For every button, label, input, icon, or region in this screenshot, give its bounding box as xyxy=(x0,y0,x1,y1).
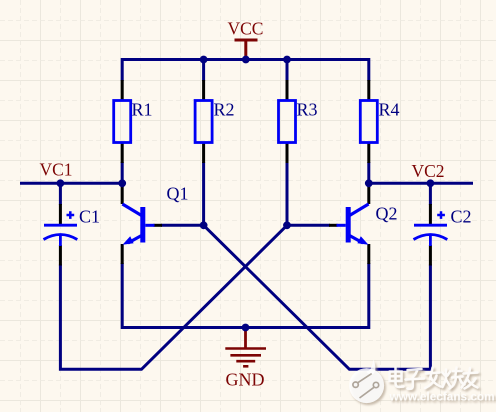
svg-text:GND: GND xyxy=(226,370,265,390)
junction dot rail-R2 xyxy=(200,56,208,64)
wire R2 bottom to Q1 base node xyxy=(202,162,205,225)
wire VC2 to Q2 collector xyxy=(367,183,370,187)
wire R3 top stub xyxy=(286,60,289,82)
power VCC symbol xyxy=(228,19,264,60)
wire C2 top stub xyxy=(429,183,432,205)
svg-text:C2: C2 xyxy=(451,207,472,227)
svg-text:R3: R3 xyxy=(297,100,318,120)
pin Q2 base xyxy=(329,224,338,227)
wire R4 bottom to VC2 xyxy=(367,162,370,183)
resistor R2 xyxy=(195,100,234,143)
wire VC2 horizontal xyxy=(369,182,473,185)
wire cross Q1 base to C2 bottom xyxy=(204,225,431,369)
junction dot VC1-C1 xyxy=(57,179,65,187)
svg-text:Q2: Q2 xyxy=(376,204,398,224)
capacitor C1 xyxy=(44,207,101,247)
wire emitter rail bottom xyxy=(122,263,369,328)
wire C1 top stub xyxy=(59,183,62,205)
wire Q1 base to node xyxy=(161,224,204,227)
wire VC1 to Q1 collector xyxy=(121,183,124,187)
wire cross C1 bottom to Q2 base xyxy=(60,225,287,369)
watermark logo balloon xyxy=(349,360,384,404)
wire Q2 base to node xyxy=(287,224,330,227)
pin Q2 collector xyxy=(367,187,370,205)
svg-text:www.elecfans.com: www.elecfans.com xyxy=(389,390,495,404)
resistor R4 xyxy=(360,100,399,143)
junction dot rail-VCC xyxy=(242,56,250,64)
pin R1 top xyxy=(121,80,124,101)
pin R1 bottom xyxy=(121,142,124,163)
transistor Q1 xyxy=(122,184,188,245)
pin C2 bottom xyxy=(429,245,432,266)
junction dot VC2-C2 xyxy=(427,179,435,187)
pin C2 top xyxy=(429,204,432,225)
ground GND symbol xyxy=(225,328,266,390)
svg-text:C1: C1 xyxy=(79,207,100,227)
wire R2 top stub xyxy=(202,60,205,82)
junction dot Q1 base node xyxy=(200,221,208,229)
pin Q2 emitter xyxy=(367,244,370,264)
pin R2 top xyxy=(202,80,205,101)
wire R1 bottom to VC1 xyxy=(121,162,124,183)
pin Q1 base xyxy=(154,224,163,227)
wire R3 bottom to Q2 base node xyxy=(286,162,289,225)
pin R2 bottom xyxy=(202,142,205,163)
pin C1 top xyxy=(59,204,62,225)
resistor R1 xyxy=(114,100,153,143)
svg-text:VC2: VC2 xyxy=(412,161,445,181)
wire top power rail xyxy=(122,60,369,82)
svg-text:VCC: VCC xyxy=(228,19,264,39)
transistor Q2 xyxy=(337,204,398,245)
junction dot GND node xyxy=(242,324,250,332)
junction dot VC1-R1 xyxy=(118,179,126,187)
capacitor C2 xyxy=(414,207,472,247)
wire VC1 horizontal xyxy=(20,182,122,185)
pin R4 bottom xyxy=(367,142,370,163)
pin R4 top xyxy=(367,80,370,101)
pin Q1 emitter xyxy=(121,244,124,264)
junction dot VC2-R4 xyxy=(365,179,373,187)
pin R3 bottom xyxy=(286,142,289,163)
svg-text:R2: R2 xyxy=(214,100,235,120)
pin R3 top xyxy=(286,80,289,101)
resistor R3 xyxy=(279,100,318,143)
junction dot rail-R3 xyxy=(283,56,291,64)
svg-text:R4: R4 xyxy=(379,100,400,120)
junction dot Q2 base node xyxy=(283,221,291,229)
pin Q1 collector xyxy=(121,187,124,205)
watermark text elecfans chinese xyxy=(390,368,478,389)
svg-text:Q1: Q1 xyxy=(167,184,189,204)
pin C1 bottom xyxy=(59,245,62,266)
svg-text:R1: R1 xyxy=(132,100,153,120)
svg-text:VC1: VC1 xyxy=(40,160,73,180)
